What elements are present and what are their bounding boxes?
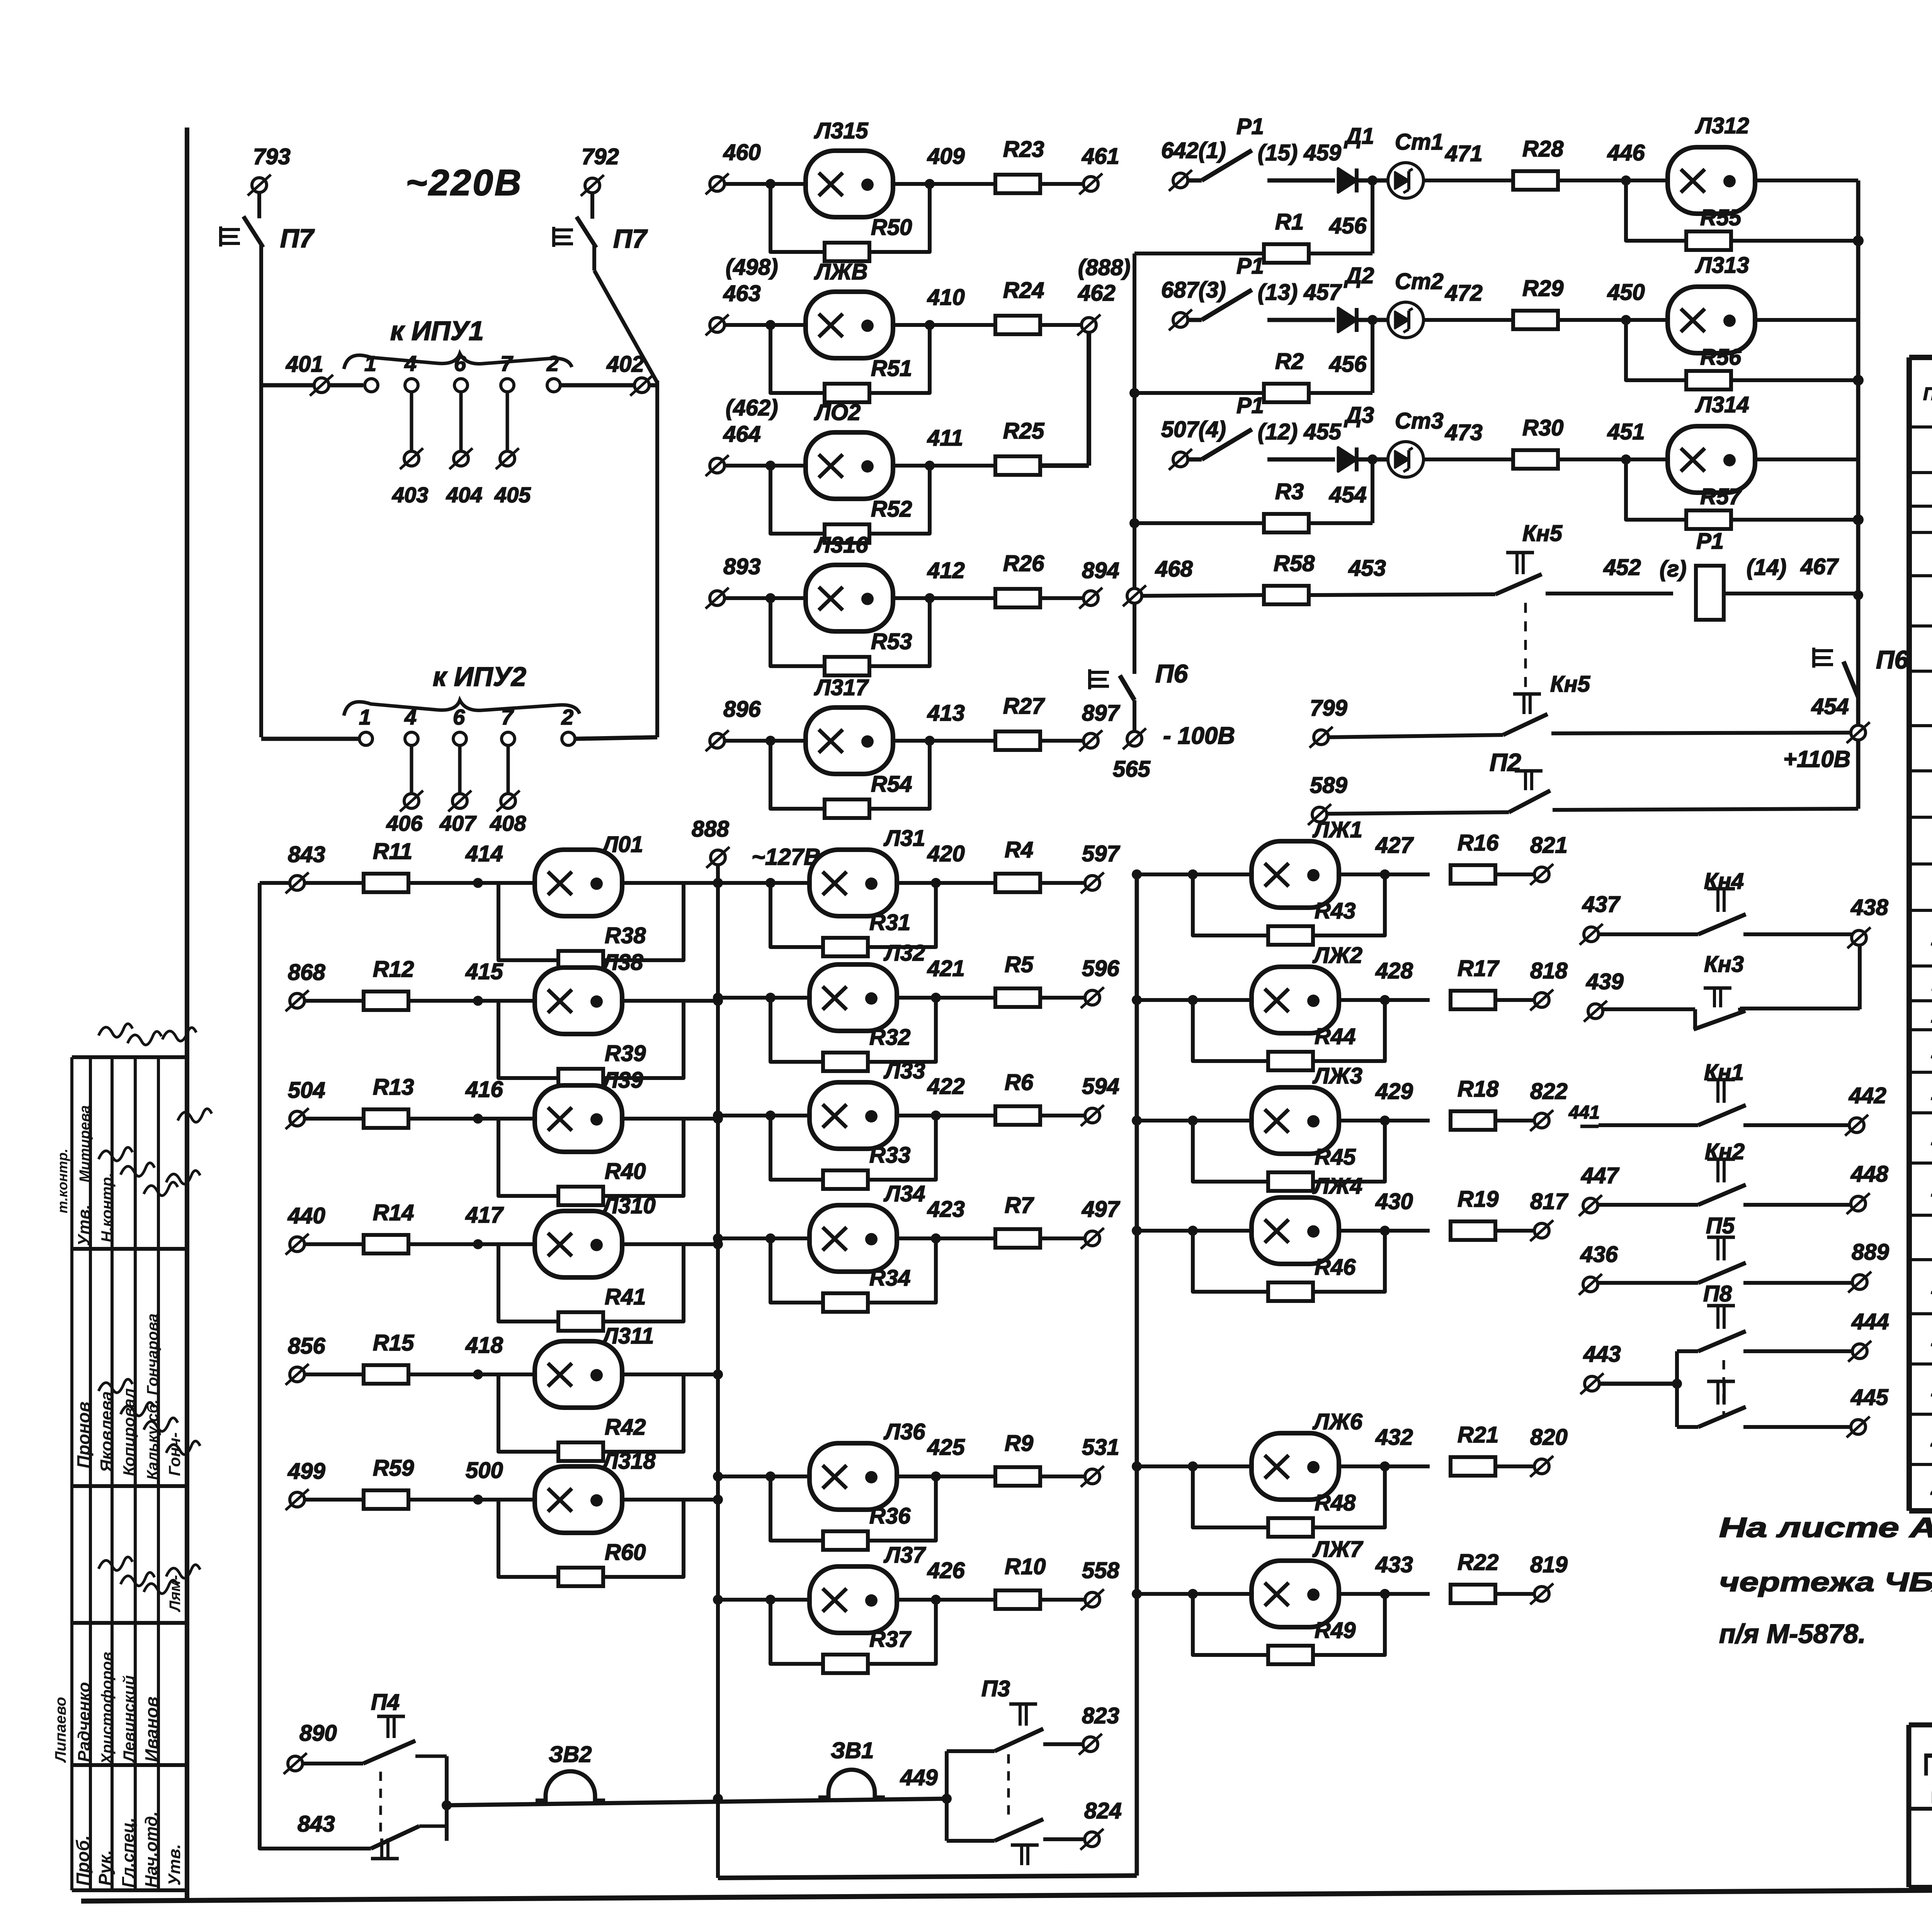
svg-text:Р1: Р1 — [1236, 114, 1264, 139]
svg-text:(462): (462) — [726, 395, 778, 420]
svg-text:Утв.: Утв. — [75, 1204, 94, 1246]
svg-text:ЛЖ7: ЛЖ7 — [1312, 1537, 1364, 1562]
svg-text:R59: R59 — [373, 1456, 414, 1481]
svg-text:409: 409 — [927, 144, 965, 169]
svg-text:2: 2 — [546, 351, 559, 376]
svg-text:Яковлева: Яковлева — [97, 1391, 116, 1473]
svg-text:- 100В: - 100В — [1163, 723, 1235, 749]
svg-text:R46: R46 — [1315, 1255, 1356, 1280]
svg-text:R60: R60 — [605, 1540, 646, 1565]
svg-text:Л39: Л39 — [601, 1068, 643, 1093]
svg-text:R55: R55 — [1700, 205, 1742, 230]
svg-text:Л316: Л316 — [814, 532, 868, 558]
svg-text:425: 425 — [927, 1435, 965, 1460]
svg-text:450: 450 — [1607, 280, 1645, 305]
svg-text:452: 452 — [1603, 555, 1641, 580]
svg-text:Кн5: Кн5 — [1522, 521, 1563, 546]
svg-text:R27: R27 — [1003, 694, 1045, 719]
svg-text:Левинский: Левинский — [120, 1675, 138, 1763]
svg-text:422: 422 — [927, 1074, 965, 1099]
svg-text:792: 792 — [582, 144, 619, 169]
svg-text:Л318: Л318 — [601, 1449, 656, 1474]
svg-text:R12: R12 — [373, 957, 414, 982]
svg-text:к ИПУ2: к ИПУ2 — [433, 662, 526, 692]
svg-text:Н.контр.: Н.контр. — [99, 1173, 116, 1242]
svg-text:473: 473 — [1445, 420, 1483, 445]
svg-text:ЛЖ6: ЛЖ6 — [1312, 1409, 1363, 1434]
svg-text:504: 504 — [288, 1078, 325, 1103]
svg-text:429: 429 — [1375, 1079, 1413, 1104]
svg-text:Рук.: Рук. — [95, 1850, 115, 1886]
svg-text:444: 444 — [1851, 1309, 1889, 1334]
svg-text:ЗВ1: ЗВ1 — [831, 1738, 874, 1763]
svg-text:7: 7 — [501, 705, 514, 729]
svg-text:897: 897 — [1082, 701, 1121, 726]
svg-text:799: 799 — [1310, 696, 1347, 721]
svg-text:596: 596 — [1082, 956, 1120, 981]
svg-text:R48: R48 — [1315, 1490, 1356, 1515]
svg-text:531: 531 — [1082, 1435, 1119, 1460]
svg-text:П7: П7 — [280, 224, 315, 253]
svg-text:454: 454 — [1329, 482, 1367, 507]
svg-text:(498): (498) — [726, 255, 778, 280]
svg-text:Д3: Д3 — [1344, 403, 1374, 428]
svg-text:R49: R49 — [1315, 1618, 1355, 1643]
svg-text:401: 401 — [286, 352, 323, 377]
svg-text:R57: R57 — [1700, 484, 1742, 509]
svg-text:R36: R36 — [869, 1503, 911, 1529]
svg-text:467: 467 — [1800, 554, 1839, 579]
svg-text:Л317: Л317 — [814, 675, 869, 700]
svg-text:594: 594 — [1082, 1074, 1119, 1099]
svg-text:R13: R13 — [373, 1075, 414, 1100]
svg-text:R24: R24 — [1003, 278, 1044, 303]
svg-text:(888): (888) — [1078, 255, 1130, 280]
svg-text:Р1: Р1 — [1696, 529, 1724, 554]
svg-text:447: 447 — [1581, 1163, 1620, 1188]
svg-text:463: 463 — [723, 281, 761, 306]
svg-text:Поз.: Поз. — [1923, 384, 1932, 404]
svg-text:R54: R54 — [871, 772, 912, 797]
svg-text:На листе А-83 представлена ко: На листе А-83 представлена копия — [1719, 1512, 1932, 1543]
svg-text:Л31: Л31 — [883, 826, 925, 851]
svg-text:889: 889 — [1852, 1240, 1889, 1265]
svg-text:R18: R18 — [1458, 1077, 1499, 1102]
svg-text:6: 6 — [454, 351, 466, 376]
svg-text:R5: R5 — [1005, 952, 1034, 977]
svg-text:Л314: Л314 — [1695, 392, 1749, 417]
svg-text:843: 843 — [288, 842, 325, 867]
svg-text:21: 21 — [1930, 1477, 1932, 1499]
svg-text:868: 868 — [288, 960, 326, 985]
svg-text:438: 438 — [1850, 895, 1889, 920]
svg-text:R30: R30 — [1522, 415, 1563, 440]
svg-text:497: 497 — [1082, 1197, 1121, 1222]
svg-text:(12) 455: (12) 455 — [1258, 419, 1342, 444]
svg-text:1: 1 — [364, 351, 376, 376]
svg-text:443: 443 — [1583, 1342, 1621, 1367]
svg-text:чертежа ЧБХ608522ЭЗ ГУА и пред: чертежа ЧБХ608522ЭЗ ГУА и предприятия — [1719, 1567, 1932, 1597]
svg-text:Д2: Д2 — [1344, 263, 1374, 288]
svg-text:R17: R17 — [1458, 956, 1500, 981]
svg-text:442: 442 — [1849, 1083, 1886, 1108]
svg-text:R14: R14 — [373, 1200, 414, 1225]
svg-text:Кн4: Кн4 — [1704, 869, 1744, 894]
svg-text:445: 445 — [1850, 1385, 1889, 1410]
svg-text:Копировал: Копировал — [120, 1388, 138, 1476]
svg-text:407: 407 — [439, 811, 477, 835]
svg-text:R41: R41 — [605, 1284, 646, 1310]
svg-text:464: 464 — [723, 422, 761, 447]
svg-text:R28: R28 — [1522, 136, 1564, 162]
svg-text:R19: R19 — [1458, 1187, 1498, 1212]
svg-text:893: 893 — [723, 554, 761, 579]
svg-text:413: 413 — [927, 701, 965, 726]
svg-text:Утв.: Утв. — [165, 1844, 184, 1886]
svg-text:Л313: Л313 — [1695, 253, 1749, 278]
svg-text:817: 817 — [1530, 1189, 1569, 1214]
svg-text:ЛЖ2: ЛЖ2 — [1312, 943, 1362, 968]
svg-text:R23: R23 — [1003, 137, 1044, 162]
svg-text:430: 430 — [1375, 1189, 1413, 1214]
svg-text:402: 402 — [606, 352, 644, 377]
svg-text:Л38: Л38 — [601, 950, 643, 975]
svg-text:R37: R37 — [869, 1627, 912, 1652]
svg-text:843: 843 — [298, 1811, 335, 1837]
svg-text:500: 500 — [466, 1458, 503, 1483]
svg-text:499: 499 — [287, 1459, 325, 1484]
svg-text:441: 441 — [1568, 1102, 1600, 1123]
svg-text:446: 446 — [1607, 140, 1645, 165]
svg-text:824: 824 — [1084, 1798, 1122, 1823]
svg-text:Митирева: Митирева — [77, 1105, 93, 1182]
svg-text:т.контр.: т.контр. — [54, 1148, 70, 1213]
svg-text:432: 432 — [1375, 1425, 1413, 1450]
svg-text:437: 437 — [1582, 892, 1621, 917]
svg-text:Христофоров: Христофоров — [99, 1652, 116, 1765]
svg-text:822: 822 — [1530, 1079, 1568, 1104]
svg-text:П6: П6 — [1155, 659, 1188, 688]
svg-text:ЛО2: ЛО2 — [814, 400, 861, 425]
svg-text:406: 406 — [386, 811, 423, 835]
svg-text:421: 421 — [927, 956, 965, 981]
svg-text:П5: П5 — [1706, 1213, 1735, 1238]
svg-text:R34: R34 — [869, 1265, 910, 1291]
svg-text:R56: R56 — [1700, 345, 1742, 370]
svg-text:R31: R31 — [869, 910, 910, 935]
svg-text:R3: R3 — [1275, 479, 1304, 504]
svg-text:Нач.отд.: Нач.отд. — [142, 1811, 161, 1888]
svg-text:~220В: ~220В — [406, 162, 523, 203]
svg-text:408: 408 — [490, 811, 526, 835]
svg-text:(15) 459: (15) 459 — [1258, 140, 1341, 165]
svg-text:Д1: Д1 — [1344, 124, 1374, 149]
svg-text:Ст1: Ст1 — [1395, 129, 1444, 155]
svg-text:472: 472 — [1445, 281, 1483, 306]
svg-text:821: 821 — [1530, 833, 1568, 858]
svg-text:R45: R45 — [1315, 1145, 1356, 1170]
svg-text:Иванов: Иванов — [141, 1696, 162, 1762]
svg-text:Л312: Л312 — [1695, 113, 1749, 138]
svg-text:Проб.: Проб. — [73, 1835, 93, 1886]
svg-text:Кн2: Кн2 — [1705, 1139, 1745, 1164]
svg-text:7: 7 — [500, 351, 514, 376]
svg-text:ЛЖВ: ЛЖВ — [814, 259, 868, 284]
svg-text:R44: R44 — [1315, 1024, 1355, 1049]
svg-text:R10: R10 — [1005, 1554, 1046, 1579]
svg-text:ЛЖ1: ЛЖ1 — [1312, 817, 1362, 842]
svg-text:Гл.спец.: Гл.спец. — [119, 1818, 138, 1888]
svg-text:460: 460 — [723, 140, 761, 165]
svg-text:1: 1 — [359, 705, 371, 729]
svg-text:462: 462 — [1078, 281, 1116, 306]
svg-text:405: 405 — [494, 483, 531, 507]
svg-text:414: 414 — [465, 841, 503, 866]
svg-text:R2: R2 — [1275, 349, 1304, 374]
svg-text:856: 856 — [288, 1333, 326, 1359]
svg-text:Кн5: Кн5 — [1550, 672, 1590, 697]
svg-text:894: 894 — [1082, 558, 1119, 583]
svg-text:R1: R1 — [1275, 209, 1304, 235]
svg-text:R16: R16 — [1458, 830, 1499, 855]
svg-text:Л32: Л32 — [883, 940, 925, 966]
svg-text:433: 433 — [1375, 1552, 1413, 1577]
svg-text:415: 415 — [465, 959, 503, 984]
svg-text:п/я М-5878.: п/я М-5878. — [1719, 1619, 1866, 1649]
svg-text:823: 823 — [1082, 1703, 1119, 1728]
svg-text:R32: R32 — [869, 1025, 910, 1050]
svg-text:819: 819 — [1530, 1552, 1568, 1577]
svg-text:R15: R15 — [373, 1330, 414, 1355]
svg-text:565: 565 — [1113, 757, 1151, 782]
svg-text:R21: R21 — [1458, 1422, 1498, 1447]
svg-text:416: 416 — [465, 1077, 503, 1102]
svg-text:411: 411 — [927, 425, 963, 451]
svg-text:558: 558 — [1082, 1558, 1120, 1583]
svg-text:к ИПУ1: к ИПУ1 — [390, 316, 484, 346]
svg-text:Л311: Л311 — [601, 1323, 654, 1349]
svg-text:793: 793 — [253, 144, 291, 169]
svg-text:Липаево: Липаево — [52, 1697, 69, 1763]
svg-text:20: 20 — [1930, 1429, 1932, 1451]
svg-text:R29: R29 — [1522, 276, 1563, 301]
svg-text:R25: R25 — [1003, 418, 1044, 444]
svg-text:R6: R6 — [1005, 1070, 1034, 1095]
svg-text:Радченко: Радченко — [75, 1682, 94, 1762]
svg-text:Ст2: Ст2 — [1395, 269, 1444, 294]
svg-text:R50: R50 — [871, 215, 912, 240]
svg-text:Л33: Л33 — [883, 1058, 925, 1083]
svg-text:R51: R51 — [871, 356, 912, 381]
svg-text:404: 404 — [446, 483, 482, 507]
svg-text:R26: R26 — [1003, 551, 1044, 576]
svg-text:818: 818 — [1530, 958, 1568, 983]
svg-text:456: 456 — [1329, 213, 1367, 238]
svg-text:(13) 457: (13) 457 — [1258, 280, 1342, 305]
svg-text:R7: R7 — [1005, 1193, 1034, 1218]
svg-text:R39: R39 — [605, 1041, 646, 1066]
svg-text:ЛЖ3: ЛЖ3 — [1312, 1063, 1362, 1088]
svg-text:412: 412 — [927, 558, 965, 583]
svg-text:439: 439 — [1586, 969, 1624, 994]
svg-text:Р1: Р1 — [1236, 393, 1264, 418]
svg-text:420: 420 — [927, 841, 965, 866]
svg-text:R22: R22 — [1458, 1550, 1498, 1575]
svg-text:2: 2 — [561, 705, 573, 729]
svg-text:П8: П8 — [1703, 1281, 1732, 1306]
svg-text:471: 471 — [1445, 141, 1483, 166]
svg-text:Ст3: Ст3 — [1395, 408, 1444, 434]
svg-text:456: 456 — [1329, 352, 1367, 377]
svg-text:468: 468 — [1155, 556, 1193, 582]
svg-text:R43: R43 — [1315, 898, 1355, 923]
svg-text:Л34: Л34 — [883, 1181, 925, 1206]
svg-text:П3: П3 — [981, 1676, 1010, 1701]
svg-text:4: 4 — [404, 351, 417, 376]
svg-text:454: 454 — [1811, 694, 1849, 719]
svg-text:Р1: Р1 — [1236, 253, 1264, 279]
svg-text:R42: R42 — [605, 1415, 646, 1440]
svg-text:820: 820 — [1530, 1425, 1568, 1450]
svg-text:426: 426 — [927, 1558, 965, 1583]
svg-text:418: 418 — [465, 1333, 503, 1358]
svg-text:R53: R53 — [871, 629, 912, 654]
svg-text:896: 896 — [723, 697, 761, 722]
svg-text:R33: R33 — [869, 1143, 910, 1168]
svg-text:410: 410 — [927, 285, 965, 310]
svg-text:Кн1: Кн1 — [1704, 1060, 1744, 1085]
svg-text:ЛЖ4: ЛЖ4 — [1312, 1173, 1362, 1199]
svg-text:642(1): 642(1) — [1161, 138, 1226, 163]
svg-text:Гонч-: Гонч- — [165, 1432, 184, 1476]
svg-text:R11: R11 — [373, 839, 412, 864]
svg-text:R4: R4 — [1005, 837, 1033, 862]
svg-text:Л310: Л310 — [601, 1193, 656, 1218]
svg-text:Л01: Л01 — [601, 832, 643, 857]
svg-text:(г): (г) — [1660, 556, 1687, 582]
svg-text:687(3): 687(3) — [1161, 277, 1226, 303]
svg-text:П4: П4 — [371, 1690, 400, 1715]
svg-text:Пронов: Пронов — [73, 1401, 94, 1468]
svg-text:449: 449 — [900, 1765, 938, 1790]
svg-text:589: 589 — [1310, 773, 1347, 798]
svg-text:440: 440 — [287, 1203, 325, 1228]
svg-text:448: 448 — [1850, 1162, 1889, 1187]
svg-text:R52: R52 — [871, 497, 912, 522]
svg-text:ГИПРОСТРОЙДОРМАШ: ГИПРОСТРОЙДОРМАШ — [1923, 1747, 1932, 1782]
svg-text:(14): (14) — [1747, 555, 1786, 580]
svg-text:Кальку сб. Гончарова: Кальку сб. Гончарова — [144, 1313, 161, 1480]
svg-text:888: 888 — [692, 816, 730, 842]
svg-text:427: 427 — [1375, 833, 1414, 858]
svg-text:R40: R40 — [605, 1159, 646, 1184]
svg-text:451: 451 — [1607, 419, 1645, 444]
svg-text:Л37: Л37 — [883, 1543, 926, 1568]
svg-text:П2: П2 — [1490, 748, 1521, 776]
svg-text:453: 453 — [1348, 556, 1386, 581]
svg-text:П7: П7 — [613, 224, 648, 253]
svg-text:R9: R9 — [1005, 1431, 1033, 1456]
svg-text:П6: П6 — [1876, 645, 1909, 674]
svg-text:ЗВ2: ЗВ2 — [549, 1742, 592, 1767]
svg-text:461: 461 — [1082, 144, 1119, 169]
svg-text:507(4): 507(4) — [1161, 417, 1226, 442]
svg-text:417: 417 — [465, 1202, 504, 1228]
svg-text:597: 597 — [1082, 841, 1121, 866]
svg-text:4: 4 — [404, 705, 417, 729]
svg-text:423: 423 — [927, 1197, 965, 1222]
svg-text:403: 403 — [392, 483, 428, 507]
svg-text:428: 428 — [1375, 958, 1413, 983]
svg-text:R38: R38 — [605, 923, 646, 948]
svg-text:436: 436 — [1580, 1242, 1618, 1267]
svg-text:890: 890 — [299, 1721, 337, 1746]
svg-text:6: 6 — [453, 705, 465, 729]
svg-text:Кн3: Кн3 — [1704, 952, 1744, 977]
svg-text:+110В: +110В — [1783, 746, 1850, 772]
svg-text:Л315: Л315 — [814, 118, 868, 143]
svg-text:Л36: Л36 — [883, 1419, 925, 1444]
svg-text:R58: R58 — [1274, 551, 1315, 576]
